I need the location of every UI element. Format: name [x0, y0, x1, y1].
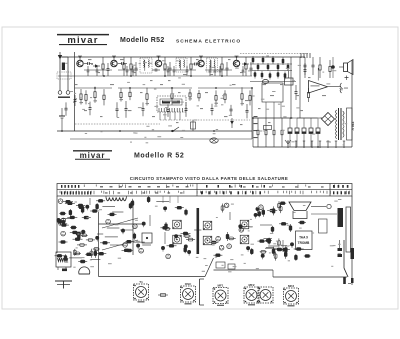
svg-text:220 V: 220 V	[351, 122, 355, 132]
value label 10	[228, 59, 231, 60]
terminal pin 7	[335, 141, 337, 148]
pcb trace mid horizontal	[214, 269, 274, 271]
wire rail driver c	[250, 81, 296, 83]
pcb transistor Q73	[216, 236, 221, 241]
pcb jumper W120	[264, 237, 272, 239]
wire junction drop 1	[252, 118, 254, 147]
pcb resistor R11	[76, 204, 85, 206]
pcb inner trace horizontal	[99, 223, 146, 225]
pcb jumper W45	[105, 236, 118, 238]
capacitor C43	[132, 66, 134, 70]
svg-text:OSC: OSC	[185, 282, 192, 286]
pcb wire 6	[282, 240, 284, 252]
pcb jumper W9	[69, 257, 82, 259]
wire rail bottom right	[253, 146, 352, 148]
resistor R58	[254, 72, 257, 76]
pcb ground trace	[197, 208, 200, 254]
pcb capacitor C109	[273, 247, 275, 256]
pcb small box mid	[142, 233, 152, 243]
capacitor C19	[211, 104, 213, 109]
pcb trimmer pointer 2	[102, 240, 138, 250]
junction node 20	[252, 117, 254, 119]
wire top dashed AGC	[240, 53, 308, 55]
pcb disc capacitor C18	[86, 205, 89, 208]
pcb resistor R12	[93, 248, 100, 250]
IF transformer T3	[207, 58, 218, 72]
wire junction drop 2	[251, 88, 253, 139]
pcb jumper W98	[281, 245, 290, 247]
resistor R36	[265, 118, 267, 130]
value label 21	[75, 84, 78, 85]
pcb resistor R69	[186, 239, 195, 241]
pcb resistor R49	[96, 253, 106, 255]
pcb resistor R7	[77, 244, 87, 246]
svg-text:Modello R 52: Modello R 52	[134, 153, 184, 160]
value label 28	[245, 100, 249, 101]
pcb resistor R30	[55, 255, 65, 257]
transistor Q2 (AF117)	[111, 57, 117, 67]
pcb capacitor C127	[148, 196, 150, 203]
pcb resistor R70	[59, 241, 68, 243]
pcb resistor R121	[265, 240, 272, 242]
resistor R21	[224, 90, 226, 94]
resistor R62	[284, 73, 287, 77]
IF footprint T4	[240, 220, 249, 229]
terminal pin 6	[327, 141, 329, 148]
capacitor C40	[87, 66, 89, 70]
wire seg y70 d	[205, 69, 232, 71]
pcb wire right	[311, 213, 337, 215]
IF footprint T3	[203, 221, 212, 230]
pcb disc capacitor C63	[164, 207, 167, 210]
dial heavy marks mid	[201, 185, 265, 194]
value label 1	[88, 59, 92, 60]
pcb transistor Q42	[139, 248, 144, 253]
pcb resistor R61	[290, 224, 292, 232]
terminal pin Y	[285, 140, 291, 144]
pcb jumper W41	[142, 244, 151, 246]
capacitor C29	[295, 85, 297, 92]
resistor R22	[241, 87, 243, 93]
value label 32	[152, 116, 155, 117]
value label 11	[240, 72, 243, 73]
pcb resistor R108	[294, 248, 304, 250]
wire seg y70 b	[118, 69, 138, 71]
pcb capacitor C21	[65, 254, 67, 261]
pcb resistor R16	[59, 213, 66, 215]
pcb wire 8	[110, 244, 124, 246]
pcb module TAA981	[296, 231, 313, 250]
pcb resistor R5	[81, 234, 88, 236]
wire amp top	[317, 68, 319, 81]
pcb transistor Q43	[123, 243, 128, 248]
pcb capacitor C83	[273, 206, 275, 215]
pcb resistor R62	[160, 227, 169, 229]
pcb transistor Q75	[239, 228, 244, 233]
pcb resistor R92	[279, 202, 286, 204]
pcb jumper W68	[194, 229, 201, 231]
antenna terminal	[327, 204, 331, 208]
pcb connector bar	[346, 207, 351, 252]
resistor R61	[277, 72, 280, 76]
transformer footprint MF2	[244, 287, 259, 303]
pcb capacitor C124	[268, 238, 270, 245]
pcb wire 7	[164, 232, 166, 244]
value label 35	[224, 116, 228, 117]
pcb disc capacitor C24	[57, 219, 60, 222]
pcb capacitor C77	[222, 204, 224, 213]
pcb capacitor C82	[278, 238, 280, 247]
voltage labels column	[254, 116, 258, 138]
value label 9	[210, 74, 213, 75]
capacitor C45	[173, 66, 175, 70]
resistor R17	[171, 87, 173, 94]
capacitor C48	[214, 66, 216, 70]
pcb inner trace vertical	[98, 212, 100, 277]
resistor R15	[129, 89, 131, 92]
value label 25	[178, 92, 181, 93]
capacitor C28	[304, 63, 306, 70]
junction node 17	[119, 130, 121, 132]
AGC tick marks	[301, 53, 310, 58]
value label 17	[322, 95, 326, 96]
speaker LS1	[339, 60, 353, 75]
pcb capacitor C81	[227, 232, 229, 241]
mivar logo (top)	[57, 35, 109, 46]
mains terminal 220V	[347, 108, 355, 140]
resistor R59	[261, 73, 264, 77]
pcb transistor Q78	[224, 203, 229, 208]
pcb resistor R2	[73, 233, 83, 235]
pcb transistor Q35	[61, 218, 66, 223]
capacitor C37 (electrolytic)	[302, 118, 306, 147]
value label 23	[140, 92, 143, 93]
dial lamp LP1	[210, 138, 218, 143]
wire dial cord 2	[169, 196, 171, 203]
pcb resistor R99	[260, 251, 267, 253]
scan annotation texture	[65, 55, 347, 272]
pcb resistor R19	[58, 223, 67, 225]
pcb resistor R29	[70, 227, 77, 229]
capacitor C3	[107, 63, 109, 69]
svg-text:MF3: MF3	[288, 284, 294, 288]
pcb disc capacitor C13	[59, 220, 62, 223]
pcb resistor R14	[70, 231, 80, 233]
value label 6	[168, 80, 171, 81]
terminal pin 3	[303, 141, 305, 148]
diode D3	[230, 118, 234, 128]
wire rail driver b	[250, 70, 292, 72]
label Q4	[199, 56, 203, 57]
pcb capacitor C70	[185, 209, 187, 216]
bracket footprint	[200, 279, 205, 305]
pcb capacitor C3	[82, 207, 84, 214]
terminal pin 4	[311, 141, 313, 148]
wire rail resistor-row c	[198, 87, 252, 89]
junction node 8	[164, 75, 166, 77]
pcb transistor Q47	[133, 224, 138, 229]
pcb resistor R74	[227, 237, 236, 239]
pcb disc C74	[161, 246, 164, 249]
pcb capacitor C94	[280, 204, 282, 213]
capacitor C9	[226, 62, 228, 68]
pcb resistor R67	[175, 207, 184, 209]
resistor R38	[281, 118, 283, 130]
svg-text:T1: T1	[139, 280, 143, 284]
capacitor C32 blob	[331, 65, 335, 69]
value label 30	[100, 116, 103, 117]
pcb wire 4	[229, 212, 231, 220]
wire left edge	[74, 52, 76, 131]
switch S1	[172, 127, 180, 132]
power transformer TR1	[336, 108, 345, 140]
IF transformer T2	[176, 58, 187, 72]
svg-text:MF2: MF2	[249, 283, 255, 287]
resistor R53	[267, 65, 270, 69]
value label 14	[280, 84, 283, 85]
pcb resistor R89	[279, 223, 288, 225]
pcb resistor R61	[181, 232, 191, 234]
pcb resistor R118	[213, 254, 222, 256]
capacitor C47	[209, 66, 211, 70]
transformer footprint F	[258, 287, 273, 303]
value label 19	[268, 122, 271, 123]
pcb edge strip divider	[329, 184, 331, 197]
pcb trace node a	[216, 262, 225, 268]
junction node 9	[190, 75, 192, 77]
junction node 6	[103, 75, 105, 77]
value label 2	[97, 72, 100, 73]
junction node 21	[290, 117, 292, 119]
capacitor C38 (electrolytic)	[309, 118, 313, 147]
dial scale tick marks	[60, 185, 349, 195]
pcb outline bottom	[99, 276, 206, 278]
terminal pin 8	[343, 141, 345, 148]
pcb resistor R66	[164, 228, 171, 230]
pcb right edge block	[351, 248, 355, 259]
tuning gang footprint	[79, 267, 90, 274]
transistor Q4 (AF117)	[198, 57, 204, 67]
junction node 10	[221, 75, 223, 77]
value label 26	[205, 92, 208, 93]
capacitor C12	[65, 102, 67, 108]
pcb jumper W51	[112, 211, 123, 213]
pcb capacitor C91	[262, 208, 264, 217]
pcb wire 2	[120, 229, 133, 231]
capacitor C44	[167, 66, 169, 70]
capacitor C41	[96, 66, 98, 70]
resistor R12	[94, 87, 96, 92]
terminal pin 1	[287, 141, 289, 148]
resistor R18	[189, 89, 191, 93]
junction node 5	[236, 56, 238, 58]
IF footprint sq5	[240, 235, 249, 244]
pcb capacitor C88	[278, 201, 280, 210]
resistor R60	[269, 73, 272, 77]
wire dashed loop	[75, 123, 160, 125]
wire dial cord 1	[162, 196, 164, 203]
svg-text:TROMB: TROMB	[298, 241, 310, 245]
label R18	[189, 98, 193, 99]
capacitor C10	[250, 62, 252, 68]
pcb resistor R17	[73, 238, 83, 240]
pcb resistor R60	[167, 245, 177, 247]
resistor R19	[198, 90, 200, 93]
dial strip right cell marks	[333, 185, 350, 194]
wire loop drop 1	[265, 102, 267, 118]
value label 15	[296, 95, 299, 96]
antenna arrow	[58, 52, 62, 60]
pcb trace node b	[228, 264, 235, 269]
pcb capacitor C111	[285, 245, 287, 254]
pcb capacitor C8	[78, 233, 80, 240]
pcb transistor Q101	[259, 205, 264, 210]
wire rail bottom 2	[70, 138, 252, 140]
pcb jumper W56	[102, 205, 115, 207]
amplifier U2 (output stage)	[309, 81, 342, 94]
pcb capacitor C103	[90, 249, 92, 258]
pcb jumper W90	[268, 245, 278, 247]
pcb resistor R54	[108, 213, 117, 215]
pcb jumper W128	[156, 201, 169, 203]
svg-text:TAA 9: TAA 9	[299, 236, 308, 240]
pcb disc capacitor C122	[290, 243, 293, 246]
resistor R4	[130, 57, 132, 64]
pcb transistor Q6	[58, 199, 63, 204]
pcb disc capacitor C53	[137, 244, 140, 247]
svg-text:MF1: MF1	[218, 283, 224, 287]
pcb resistor R96	[267, 210, 277, 212]
capacitor C42	[126, 66, 128, 70]
wire rail resistor-row a	[75, 87, 113, 89]
pcb wire 1	[89, 198, 91, 205]
pcb resistor R93	[257, 240, 266, 242]
pcb disc capacitor C110	[247, 247, 250, 250]
label R10	[80, 102, 84, 103]
volume potentiometer P1	[191, 120, 196, 131]
pcb disc capacitor C72	[239, 225, 242, 228]
resistor R20	[215, 90, 217, 95]
pcb switch S2	[343, 240, 348, 284]
pcb wire 5	[260, 224, 272, 226]
pcb capacitor C32	[96, 203, 98, 210]
pcb transistor Q76	[219, 245, 224, 250]
resistor R14	[120, 88, 122, 92]
ferrite antenna L1	[57, 57, 71, 98]
pcb jumper W80	[240, 226, 253, 228]
capacitor C49	[219, 66, 221, 70]
value label 4	[133, 72, 136, 73]
pcb resistor R95	[275, 249, 285, 251]
wire top rail	[62, 56, 305, 58]
resistor R3	[123, 57, 125, 64]
pcb capacitor C31	[74, 249, 76, 256]
wire rail bottom 1	[57, 130, 252, 132]
label Q5	[235, 56, 239, 57]
pcb disc capacitor C64	[175, 235, 178, 238]
pcb resistor R34	[63, 201, 73, 203]
resistor R23	[249, 90, 251, 95]
resistor R52	[262, 58, 265, 62]
wire dashed feedback	[160, 119, 250, 121]
junction node 12	[129, 87, 131, 89]
wire rail mid-left	[58, 75, 155, 77]
label R22	[241, 103, 245, 104]
junction node 1	[79, 56, 81, 58]
bridge rectifier BR1	[322, 113, 335, 126]
label Q3	[157, 56, 161, 57]
junction node 13	[171, 87, 173, 89]
capacitor C20	[230, 105, 232, 109]
resistor R57	[287, 65, 290, 69]
capacitor C7	[169, 62, 171, 68]
pcb disc capacitor C46	[142, 222, 145, 225]
pcb jumper W40	[133, 241, 145, 243]
pcb right edge cap	[338, 240, 343, 257]
pcb transistor Q55	[106, 219, 111, 224]
capacitor C35 (electrolytic)	[288, 118, 292, 147]
svg-text:mivar: mivar	[80, 151, 106, 160]
pcb resistor R33	[90, 210, 99, 212]
svg-text:Modello R52: Modello R52	[120, 37, 165, 44]
pcb disc capacitor C36	[96, 236, 99, 239]
pcb jumper W1	[76, 231, 86, 233]
pcb capacitor C116	[275, 252, 277, 261]
junction node 19	[213, 130, 215, 132]
wire seg y70 a	[84, 69, 112, 71]
transistor Q3 (AF117)	[155, 57, 161, 67]
value label 3	[120, 59, 124, 60]
earphone jack J1	[340, 83, 348, 93]
wire loop drop 2	[273, 102, 275, 118]
wire antenna lead	[311, 206, 326, 208]
pcb resistor R123	[280, 249, 290, 251]
resistor R6	[190, 57, 192, 64]
value label 18	[258, 108, 261, 109]
svg-text:CIRCUITO STAMPATO VISTO DALLA: CIRCUITO STAMPATO VISTO DALLA PARTE DELL…	[130, 176, 289, 181]
pcb disc capacitor C65	[188, 250, 191, 253]
wire bus vertical a	[290, 57, 292, 118]
capacitor C4	[118, 63, 122, 65]
junction node 18	[172, 130, 174, 132]
capacitor C6	[152, 69, 155, 71]
ferrite rod footprint	[56, 252, 71, 271]
pcb capacitor C27	[69, 209, 71, 216]
resistor R35	[257, 118, 259, 130]
pcb edge strip divider 2	[196, 184, 198, 197]
resistor R16	[146, 88, 148, 94]
junction node 11	[94, 87, 96, 89]
capacitor C50	[242, 66, 244, 70]
resistor R30	[319, 57, 321, 65]
wire rail driver a	[250, 63, 292, 65]
pcb resistor R102	[78, 261, 87, 263]
capacitor C30	[304, 57, 306, 65]
pcb capacitor C72	[165, 222, 167, 230]
junction node 3	[158, 56, 160, 58]
junction node 14	[215, 87, 217, 89]
wire right edge	[351, 60, 353, 147]
pcb capacitor C112	[184, 246, 186, 253]
capacitor C36 (electrolytic)	[295, 118, 299, 147]
svg-text:SCHEMA ELETTRICO: SCHEMA ELETTRICO	[176, 39, 241, 45]
junction node 7	[130, 75, 132, 77]
pcb capacitor C87	[251, 248, 253, 255]
pcb resistor R4	[86, 239, 95, 241]
pcb transistor Q71	[227, 244, 232, 249]
pcb outline right edge	[351, 196, 353, 285]
pcb resistor R10	[82, 217, 91, 219]
